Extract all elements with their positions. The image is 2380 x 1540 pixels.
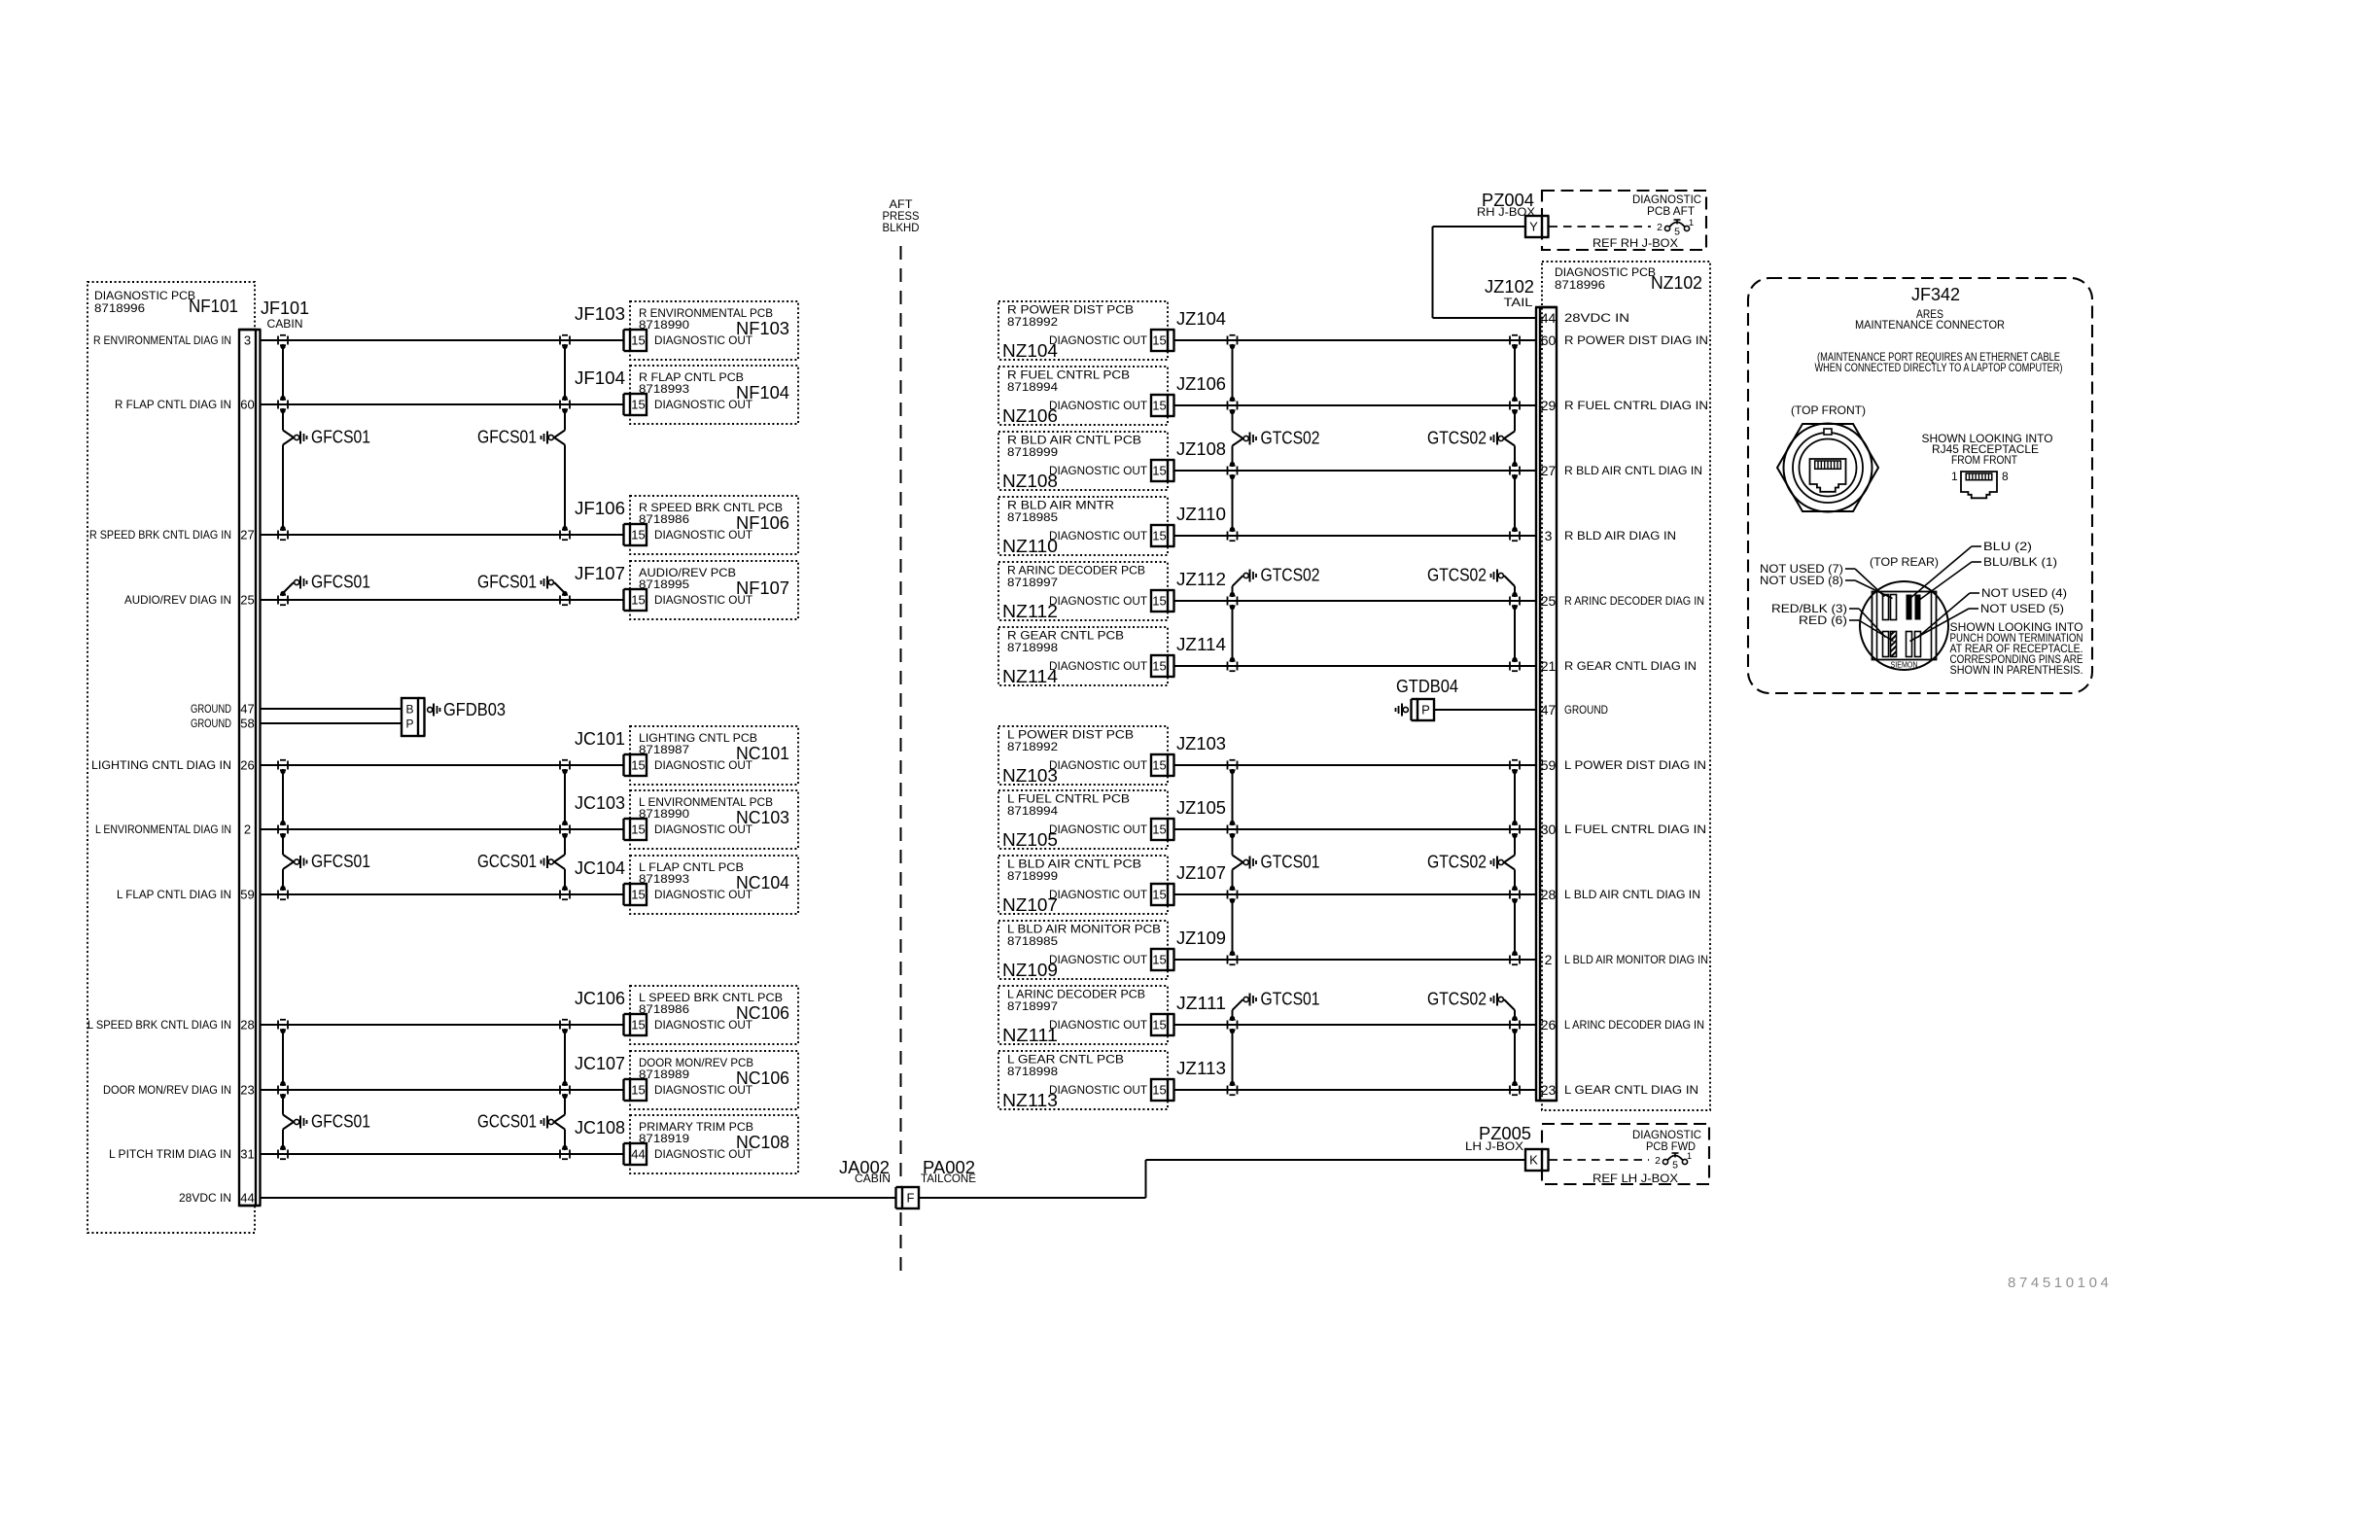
svg-text:15: 15 [1152, 333, 1166, 348]
svg-text:15: 15 [631, 528, 645, 542]
svg-text:JC106: JC106 [575, 989, 625, 1008]
svg-text:8718999: 8718999 [1007, 445, 1058, 459]
svg-text:NZ102: NZ102 [1651, 273, 1702, 293]
svg-text:JF342: JF342 [1911, 285, 1960, 304]
svg-text:27: 27 [240, 528, 254, 542]
svg-text:PCB AFT: PCB AFT [1647, 204, 1696, 218]
svg-text:DIAGNOSTIC OUT: DIAGNOSTIC OUT [654, 758, 753, 772]
svg-text:2: 2 [1657, 222, 1662, 233]
svg-text:DIAGNOSTIC OUT: DIAGNOSTIC OUT [1049, 953, 1148, 966]
svg-text:NZ103: NZ103 [1002, 766, 1058, 786]
svg-text:R GEAR CNTL DIAG IN: R GEAR CNTL DIAG IN [1564, 659, 1697, 673]
svg-text:30: 30 [1541, 822, 1557, 837]
svg-text:K: K [1529, 1153, 1538, 1168]
svg-text:R BLD AIR CNTL DIAG IN: R BLD AIR CNTL DIAG IN [1564, 464, 1702, 477]
svg-text:FROM FRONT: FROM FRONT [1951, 453, 2018, 467]
svg-text:60: 60 [240, 398, 254, 412]
svg-text:15: 15 [1152, 888, 1166, 902]
svg-text:8718997: 8718997 [1007, 576, 1058, 589]
svg-text:1: 1 [1687, 1151, 1692, 1162]
svg-text:LH J-BOX: LH J-BOX [1465, 1139, 1523, 1153]
svg-text:GFCS01: GFCS01 [311, 573, 370, 592]
svg-text:DIAGNOSTIC OUT: DIAGNOSTIC OUT [1049, 399, 1148, 412]
svg-text:15: 15 [631, 593, 645, 608]
svg-text:44: 44 [1541, 310, 1557, 326]
svg-text:L FUEL CNTRL DIAG IN: L FUEL CNTRL DIAG IN [1564, 822, 1706, 836]
svg-text:JZ106: JZ106 [1176, 374, 1226, 394]
svg-text:R FUEL CNTRL DIAG IN: R FUEL CNTRL DIAG IN [1564, 399, 1708, 412]
svg-text:JC103: JC103 [575, 793, 625, 813]
svg-text:L BLD AIR MONITOR DIAG IN: L BLD AIR MONITOR DIAG IN [1564, 953, 1708, 966]
svg-text:8718985: 8718985 [1007, 934, 1058, 948]
svg-text:GTCS02: GTCS02 [1427, 566, 1487, 585]
svg-text:25: 25 [240, 593, 254, 608]
svg-text:L SPEED BRK CNTL DIAG IN: L SPEED BRK CNTL DIAG IN [87, 1018, 231, 1032]
svg-text:15: 15 [1152, 659, 1166, 674]
svg-text:L ARINC DECODER DIAG IN: L ARINC DECODER DIAG IN [1564, 1018, 1704, 1032]
svg-text:R FLAP CNTL DIAG IN: R FLAP CNTL DIAG IN [115, 398, 231, 411]
svg-text:DIAGNOSTIC OUT: DIAGNOSTIC OUT [1049, 888, 1148, 901]
svg-text:NOT USED (8): NOT USED (8) [1760, 574, 1843, 587]
svg-text:GFCS01: GFCS01 [311, 428, 370, 447]
svg-text:GTCS01: GTCS01 [1261, 853, 1320, 872]
svg-text:JZ110: JZ110 [1176, 505, 1226, 524]
svg-text:44: 44 [631, 1147, 645, 1162]
svg-text:DIAGNOSTIC PCB: DIAGNOSTIC PCB [94, 289, 195, 302]
svg-text:DOOR MON/REV DIAG IN: DOOR MON/REV DIAG IN [103, 1083, 231, 1097]
svg-text:15: 15 [1152, 1018, 1166, 1032]
svg-text:GFCS01: GFCS01 [311, 852, 370, 871]
svg-text:15: 15 [1152, 594, 1166, 609]
svg-text:15: 15 [631, 758, 645, 773]
svg-text:NZ108: NZ108 [1002, 472, 1058, 491]
svg-text:NZ111: NZ111 [1002, 1026, 1058, 1045]
svg-text:59: 59 [1541, 757, 1557, 773]
svg-text:P: P [405, 717, 413, 731]
svg-text:60: 60 [1541, 332, 1557, 348]
svg-text:(TOP FRONT): (TOP FRONT) [1791, 403, 1866, 417]
svg-text:JZ113: JZ113 [1176, 1059, 1226, 1078]
svg-text:2: 2 [1655, 1155, 1661, 1167]
svg-text:47: 47 [1541, 702, 1557, 717]
svg-text:58: 58 [240, 717, 254, 731]
svg-text:(TOP REAR): (TOP REAR) [1870, 555, 1939, 569]
svg-text:JZ104: JZ104 [1176, 309, 1226, 329]
svg-text:R BLD AIR DIAG IN: R BLD AIR DIAG IN [1564, 529, 1676, 542]
svg-text:CABIN: CABIN [855, 1172, 891, 1185]
svg-text:15: 15 [1152, 953, 1166, 967]
svg-text:TAILCONE: TAILCONE [921, 1172, 976, 1185]
svg-text:NF101: NF101 [189, 297, 238, 316]
svg-text:15: 15 [1152, 399, 1166, 413]
svg-text:LIGHTING CNTL DIAG IN: LIGHTING CNTL DIAG IN [91, 758, 231, 772]
svg-text:B: B [405, 703, 413, 717]
svg-text:874510104: 874510104 [2008, 1275, 2112, 1291]
svg-text:8718992: 8718992 [1007, 315, 1058, 329]
svg-text:JZ107: JZ107 [1176, 863, 1226, 883]
svg-text:15: 15 [631, 888, 645, 902]
svg-text:15: 15 [1152, 758, 1166, 773]
svg-text:L GEAR CNTL DIAG IN: L GEAR CNTL DIAG IN [1564, 1083, 1698, 1097]
svg-text:Y: Y [1529, 220, 1538, 234]
svg-text:DIAGNOSTIC OUT: DIAGNOSTIC OUT [1049, 822, 1148, 836]
svg-text:15: 15 [631, 822, 645, 837]
svg-text:JC101: JC101 [575, 729, 625, 749]
svg-text:GFCS01: GFCS01 [477, 573, 537, 592]
svg-text:DIAGNOSTIC OUT: DIAGNOSTIC OUT [654, 822, 753, 836]
svg-text:28VDC IN: 28VDC IN [179, 1191, 231, 1205]
svg-text:23: 23 [240, 1083, 254, 1098]
svg-text:JC108: JC108 [575, 1118, 625, 1137]
svg-text:L PITCH TRIM DIAG IN: L PITCH TRIM DIAG IN [109, 1147, 231, 1161]
svg-text:DIAGNOSTIC OUT: DIAGNOSTIC OUT [1049, 1018, 1148, 1032]
svg-text:GROUND: GROUND [1564, 703, 1608, 717]
svg-text:DIAGNOSTIC OUT: DIAGNOSTIC OUT [654, 1083, 753, 1097]
svg-text:26: 26 [240, 758, 254, 773]
svg-text:RH J-BOX: RH J-BOX [1477, 205, 1535, 219]
svg-text:15: 15 [1152, 822, 1166, 837]
svg-text:R SPEED BRK CNTL DIAG IN: R SPEED BRK CNTL DIAG IN [89, 528, 231, 542]
svg-text:JZ112: JZ112 [1176, 570, 1226, 589]
svg-text:L POWER DIST DIAG IN: L POWER DIST DIAG IN [1564, 758, 1706, 772]
svg-text:NZ112: NZ112 [1002, 602, 1058, 621]
svg-text:NZ114: NZ114 [1002, 667, 1058, 686]
svg-text:2: 2 [1545, 952, 1553, 967]
svg-text:GROUND: GROUND [191, 717, 231, 730]
svg-text:15: 15 [631, 398, 645, 412]
svg-text:SHOWN IN PARENTHESIS.: SHOWN IN PARENTHESIS. [1950, 663, 2083, 677]
svg-text:TAIL: TAIL [1504, 296, 1533, 309]
svg-text:P: P [1421, 703, 1430, 717]
svg-text:JF103: JF103 [575, 304, 625, 324]
svg-text:MAINTENANCE CONNECTOR: MAINTENANCE CONNECTOR [1855, 318, 2005, 332]
svg-text:BLU/BLK (1): BLU/BLK (1) [1983, 555, 2057, 569]
svg-text:DIAGNOSTIC OUT: DIAGNOSTIC OUT [1049, 333, 1148, 347]
svg-text:RED (6): RED (6) [1799, 613, 1847, 627]
svg-text:JZ111: JZ111 [1176, 994, 1226, 1013]
svg-text:GTCS02: GTCS02 [1261, 429, 1320, 448]
svg-text:JZ105: JZ105 [1176, 798, 1226, 818]
svg-text:DIAGNOSTIC OUT: DIAGNOSTIC OUT [1049, 529, 1148, 542]
svg-text:REF LH J-BOX: REF LH J-BOX [1592, 1172, 1678, 1185]
svg-text:REF RH J-BOX: REF RH J-BOX [1592, 236, 1678, 250]
svg-text:GTCS02: GTCS02 [1427, 853, 1487, 872]
svg-text:F: F [907, 1191, 915, 1206]
svg-text:NZ106: NZ106 [1002, 406, 1058, 426]
svg-text:AUDIO/REV DIAG IN: AUDIO/REV DIAG IN [124, 593, 231, 607]
svg-text:1: 1 [1951, 470, 1958, 483]
svg-text:8718997: 8718997 [1007, 999, 1058, 1013]
svg-text:8718998: 8718998 [1007, 1065, 1058, 1078]
svg-text:15: 15 [1152, 464, 1166, 478]
svg-text:DIAGNOSTIC OUT: DIAGNOSTIC OUT [654, 333, 753, 347]
svg-text:DIAGNOSTIC OUT: DIAGNOSTIC OUT [654, 1147, 753, 1161]
svg-text:R POWER DIST DIAG IN: R POWER DIST DIAG IN [1564, 333, 1708, 347]
svg-text:21: 21 [1541, 658, 1557, 674]
svg-text:DIAGNOSTIC OUT: DIAGNOSTIC OUT [1049, 1083, 1148, 1097]
svg-text:8718999: 8718999 [1007, 869, 1058, 883]
svg-text:8: 8 [2002, 470, 2009, 483]
svg-text:JF104: JF104 [575, 368, 625, 388]
svg-text:BLKHD: BLKHD [883, 221, 920, 234]
svg-text:R ENVIRONMENTAL DIAG IN: R ENVIRONMENTAL DIAG IN [93, 333, 231, 347]
svg-text:DIAGNOSTIC PCB: DIAGNOSTIC PCB [1555, 265, 1656, 279]
svg-text:NZ104: NZ104 [1002, 341, 1058, 361]
svg-text:L BLD AIR CNTL DIAG IN: L BLD AIR CNTL DIAG IN [1564, 888, 1700, 901]
svg-text:JZ108: JZ108 [1176, 439, 1226, 459]
svg-text:DIAGNOSTIC OUT: DIAGNOSTIC OUT [1049, 594, 1148, 608]
svg-text:NZ110: NZ110 [1002, 537, 1058, 556]
svg-text:JZ109: JZ109 [1176, 928, 1226, 948]
svg-text:GTCS01: GTCS01 [1261, 990, 1320, 1009]
svg-text:GTCS02: GTCS02 [1261, 566, 1320, 585]
svg-text:47: 47 [240, 702, 254, 717]
svg-text:NOT USED (5): NOT USED (5) [1980, 602, 2064, 615]
svg-text:8718992: 8718992 [1007, 740, 1058, 753]
svg-text:GROUND: GROUND [191, 702, 231, 716]
svg-text:GTCS02: GTCS02 [1427, 990, 1487, 1009]
svg-text:JZ114: JZ114 [1176, 635, 1226, 654]
svg-text:JC104: JC104 [575, 858, 625, 878]
svg-text:8718985: 8718985 [1007, 510, 1058, 524]
svg-text:SIEMON: SIEMON [1891, 661, 1918, 670]
svg-text:31: 31 [240, 1147, 254, 1162]
svg-text:JZ103: JZ103 [1176, 734, 1226, 753]
svg-text:NZ109: NZ109 [1002, 961, 1058, 980]
svg-text:15: 15 [1152, 1083, 1166, 1098]
svg-text:DIAGNOSTIC OUT: DIAGNOSTIC OUT [654, 398, 753, 411]
svg-text:3: 3 [1545, 528, 1553, 543]
svg-text:28VDC IN: 28VDC IN [1564, 311, 1629, 325]
svg-text:25: 25 [1541, 593, 1557, 609]
svg-text:GCCS01: GCCS01 [477, 1112, 537, 1132]
svg-text:GFDB03: GFDB03 [443, 700, 506, 719]
svg-text:28: 28 [1541, 887, 1557, 902]
svg-text:8718996: 8718996 [1555, 278, 1605, 292]
svg-text:JF101: JF101 [261, 298, 309, 318]
svg-text:NOT USED (4): NOT USED (4) [1981, 586, 2067, 600]
svg-text:2: 2 [244, 822, 251, 837]
svg-text:L ENVIRONMENTAL DIAG IN: L ENVIRONMENTAL DIAG IN [95, 822, 231, 836]
svg-text:23: 23 [1541, 1082, 1557, 1098]
svg-text:15: 15 [631, 333, 645, 348]
svg-text:JF107: JF107 [575, 564, 625, 583]
svg-text:GTDB04: GTDB04 [1396, 677, 1458, 696]
svg-text:15: 15 [631, 1018, 645, 1032]
svg-text:BLU (2): BLU (2) [1983, 540, 2032, 553]
svg-text:DIAGNOSTIC OUT: DIAGNOSTIC OUT [654, 528, 753, 542]
svg-text:JF106: JF106 [575, 499, 625, 518]
svg-text:NZ107: NZ107 [1002, 895, 1058, 915]
svg-text:DIAGNOSTIC OUT: DIAGNOSTIC OUT [654, 1018, 753, 1032]
svg-text:JC107: JC107 [575, 1054, 625, 1073]
svg-text:26: 26 [1541, 1017, 1557, 1032]
svg-text:5: 5 [1672, 1160, 1678, 1172]
svg-text:L FLAP CNTL DIAG IN: L FLAP CNTL DIAG IN [117, 888, 231, 901]
svg-text:8718994: 8718994 [1007, 380, 1058, 394]
svg-text:R ARINC DECODER DIAG IN: R ARINC DECODER DIAG IN [1564, 594, 1704, 608]
svg-text:8718994: 8718994 [1007, 804, 1058, 818]
svg-text:DIAGNOSTIC OUT: DIAGNOSTIC OUT [1049, 659, 1148, 673]
svg-text:NZ105: NZ105 [1002, 830, 1058, 850]
svg-text:29: 29 [1541, 398, 1557, 413]
svg-text:CABIN: CABIN [267, 317, 303, 331]
svg-text:15: 15 [631, 1083, 645, 1098]
svg-text:GCCS01: GCCS01 [477, 852, 537, 871]
svg-text:8718996: 8718996 [94, 301, 145, 315]
svg-text:8718998: 8718998 [1007, 641, 1058, 654]
svg-text:JZ102: JZ102 [1485, 277, 1534, 297]
svg-text:44: 44 [240, 1191, 254, 1206]
svg-text:DIAGNOSTIC OUT: DIAGNOSTIC OUT [654, 593, 753, 607]
svg-text:WHEN CONNECTED DIRECTLY TO A L: WHEN CONNECTED DIRECTLY TO A LAPTOP COMP… [1815, 361, 2063, 374]
svg-text:28: 28 [240, 1018, 254, 1032]
svg-text:59: 59 [240, 888, 254, 902]
svg-text:GFCS01: GFCS01 [477, 428, 537, 447]
svg-text:DIAGNOSTIC OUT: DIAGNOSTIC OUT [1049, 464, 1148, 477]
svg-text:15: 15 [1152, 529, 1166, 543]
svg-text:GTCS02: GTCS02 [1427, 429, 1487, 448]
svg-text:1: 1 [1689, 218, 1694, 228]
svg-text:27: 27 [1541, 463, 1557, 478]
svg-text:GFCS01: GFCS01 [311, 1112, 370, 1132]
svg-text:DIAGNOSTIC OUT: DIAGNOSTIC OUT [654, 888, 753, 901]
svg-text:3: 3 [244, 333, 251, 348]
svg-text:DIAGNOSTIC OUT: DIAGNOSTIC OUT [1049, 758, 1148, 772]
svg-text:NZ113: NZ113 [1002, 1091, 1058, 1110]
